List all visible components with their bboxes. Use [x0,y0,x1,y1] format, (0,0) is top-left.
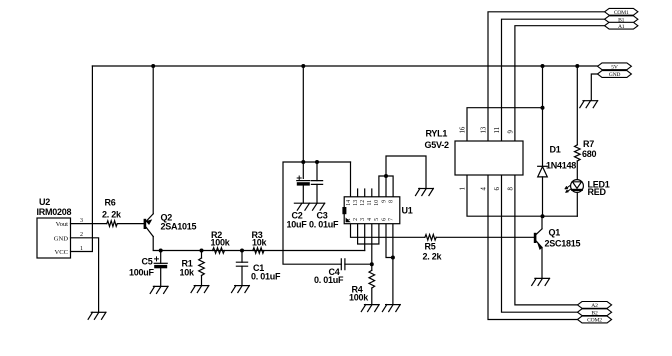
wire U1 pin3 to mid rail [364,224,366,251]
svg-text:680: 680 [582,149,597,159]
svg-text:10uF: 10uF [287,220,308,230]
ground (C2 C3 shared) [294,202,324,204]
svg-text:0. 01uF: 0. 01uF [309,220,339,230]
ground (C5) [153,285,168,287]
ground (C1) [235,285,250,287]
wire U2 GND pin2 to ground [71,238,99,312]
svg-text:10k: 10k [252,238,268,248]
svg-text:RED: RED [588,187,607,197]
junction header / C3 [315,160,319,164]
wire U1 pin7 down to ground [392,224,394,305]
junction 5V rail / Q2 emitter [151,64,155,68]
wire D1 anode down [542,177,544,216]
resistor R1 body [199,258,205,276]
junction 5V rail / R7 [575,64,579,68]
op-amp U2 IRM0208 box [37,218,71,258]
svg-text:10: 10 [374,200,380,206]
svg-text:1: 1 [460,187,467,190]
wire relay pin6 to B2 [502,175,578,312]
node COM2 tag [578,316,612,323]
capacitor C3 plates [311,181,322,185]
svg-text:3: 3 [80,218,83,224]
wire R6 to Q2 base [117,223,143,225]
svg-text:GND: GND [54,235,69,242]
wire relay pin11 to B1 [502,19,605,141]
wire U1 pin13 stub [357,189,359,197]
wire C1 top [241,251,243,263]
wire GND tag to ground [591,74,597,100]
wire relay pin13 to COM1 [488,12,605,141]
wire R7 to 5V rail [576,66,578,145]
ground (Q1 emitter) [535,277,550,279]
ground (U1 pins 6,7) [386,304,401,306]
svg-text:8: 8 [507,187,514,191]
wire U1 pin4 down [371,224,373,265]
wire C5 bottom to ground [160,268,162,286]
svg-text:5V: 5V [611,64,618,70]
wire U1 pin12 stub [364,189,366,197]
ground (R4) [365,304,380,306]
svg-text:R5: R5 [425,242,436,252]
wire relay pin9 to A1 [515,26,605,141]
svg-text:11: 11 [494,127,501,134]
svg-text:3: 3 [360,218,366,221]
node B1 tag [605,16,638,23]
wire C3 bottom [316,184,318,203]
junction coil- / D1 / Q1 collector [541,214,545,218]
svg-text:2SC1815: 2SC1815 [545,239,581,249]
svg-text:2SA1015: 2SA1015 [161,222,197,232]
wire U1 pin11 stub [371,189,373,197]
svg-text:4: 4 [481,187,488,191]
capacitor C4 plates [341,259,345,270]
svg-text:Q1: Q1 [549,228,561,238]
wire C1 bottom to ground [241,266,243,285]
svg-text:G5V-2: G5V-2 [425,140,450,150]
junction 5V rail / D1 [541,64,545,68]
LED LED1 symbol [571,180,584,193]
svg-text:A1: A1 [618,24,625,30]
svg-text:11: 11 [367,200,373,206]
wire R7 to LED1 [576,161,578,180]
wire U1 pin2 to pin5 strap [358,224,379,244]
svg-text:1N4148: 1N4148 [546,161,576,171]
svg-text:C5: C5 [142,257,153,267]
wire relay pin16 to D1 node [467,108,543,141]
wire U1 pins 10,8 strap [379,176,393,197]
wire U1 pin1 to R5 [351,224,425,238]
wire U1 pin14 up to header [350,162,352,197]
svg-text:12: 12 [360,200,366,206]
node B2 tag [578,309,612,316]
node A1 tag [605,22,638,29]
wire relay pin4 to COM2 [488,175,578,320]
wire Q2 collector down and mid rail to U1 pin3 [153,237,365,251]
node COM1 tag [605,8,638,15]
wire U1 pin6 to pin7 [386,224,393,258]
svg-text:R6: R6 [105,198,116,208]
svg-text:9: 9 [381,200,387,203]
wire Q1 emitter to ground [541,248,543,279]
wire R5 to Q1 base [436,236,533,238]
svg-text:U2: U2 [39,197,50,207]
wire C4 to pin4 junction [345,263,372,265]
wire C2 top [302,162,304,178]
junction header / C2 [301,160,305,164]
svg-text:6: 6 [381,218,387,221]
wire R4 bottom to ground [371,288,373,304]
resistor R4 body [369,270,375,288]
wire supply drop to C2/C3 header [302,66,304,162]
svg-text:2: 2 [80,232,83,238]
svg-text:2. 2k: 2. 2k [423,252,443,262]
svg-text:7: 7 [388,218,394,221]
svg-text:10k: 10k [180,268,196,278]
svg-text:9: 9 [507,130,514,134]
junction mid rail / C1 [240,249,244,253]
svg-text:2: 2 [353,218,359,221]
svg-text:U1: U1 [402,205,413,215]
capacitor C5 (electrolytic) [154,262,167,264]
wire relay pin1 to Q1 collector node and LED [467,175,577,216]
resistor R3 body [253,248,264,254]
resistor R6 body [107,221,118,227]
ground (GND tag) [583,100,598,102]
svg-text:COM1: COM1 [614,10,629,16]
wire R1 top [201,251,203,259]
wire C2/C3 header and left drop to C4 [283,162,351,264]
svg-text:2. 2k: 2. 2k [102,210,122,220]
resistor R7 body [575,145,581,161]
resistor R2 body [213,248,225,254]
junction pin6/pin7 [391,256,395,260]
capacitor C1 plates [236,262,247,266]
diode D1 symbol [538,165,548,167]
junction mid rail / C5 [159,249,163,253]
svg-text:B2: B2 [591,310,598,316]
wire Q2 emitter to 5V rail [152,66,154,214]
junction C4 / U1 pin4 / R4 [370,262,374,266]
ground (U1 pins 8-10) [419,188,434,190]
wire U1 pin9 to ground [386,156,426,197]
svg-text:Vout: Vout [56,221,69,228]
svg-text:100k: 100k [349,293,369,303]
svg-text:D1: D1 [550,145,561,155]
junction mid rail / R1 [200,249,204,253]
svg-text:100uF: 100uF [129,268,155,278]
wire C3 top [316,162,318,181]
wire U2 VCC supply drop (left) [71,66,93,252]
svg-text:IRM0208: IRM0208 [37,207,72,217]
svg-text:14: 14 [346,200,352,206]
svg-text:R7: R7 [583,139,594,149]
wire C5 top [160,251,162,264]
transistor Q1 2SC1815 (NPN) [541,216,543,229]
wire D1 cathode to 5V rail [542,66,544,166]
svg-text:1: 1 [346,218,352,221]
svg-text:COM2: COM2 [587,318,602,324]
ground (U2 GND) [91,311,106,313]
svg-text:6: 6 [494,187,501,191]
svg-text:GND: GND [609,72,621,78]
svg-text:RYL1: RYL1 [426,129,448,139]
svg-text:1: 1 [80,246,83,252]
ground (R1) [194,285,209,287]
svg-text:16: 16 [460,126,467,133]
wire R4 top [371,264,373,270]
capacitor C2 (electrolytic) [297,180,310,182]
junction 5V rail / C2 drop [301,64,305,68]
resistor R5 body [425,235,436,241]
node GND tag [598,71,632,78]
wire relay pin8 to A2 [515,175,578,305]
wire U2 Vout pin3 to R6 [71,223,107,225]
svg-text:8: 8 [388,200,394,203]
junction pins 9/10/8 strap [384,174,388,178]
svg-text:5: 5 [374,218,380,221]
svg-text:4: 4 [367,218,373,221]
wire 5V rail (top horizontal) [92,65,597,67]
svg-text:0. 01uF: 0. 01uF [314,275,344,285]
wire LED1 to coil- line [576,192,578,216]
node 5V tag [598,63,632,70]
wire R1 bottom to ground [201,276,203,286]
svg-text:13: 13 [481,126,488,133]
transistor Q2 2SA1015 (PNP) [144,219,147,229]
svg-text:VCC: VCC [54,249,68,256]
node A2 tag [578,302,612,309]
wire C2 bottom [302,186,304,203]
svg-text:100k: 100k [211,238,231,248]
svg-text:13: 13 [353,200,359,206]
junction D1 / relay pin16 [541,106,545,110]
relay RYL1 box [455,141,523,175]
svg-text:0. 01uF: 0. 01uF [251,272,281,282]
svg-text:A2: A2 [591,303,598,309]
IC U1 box [344,197,400,224]
